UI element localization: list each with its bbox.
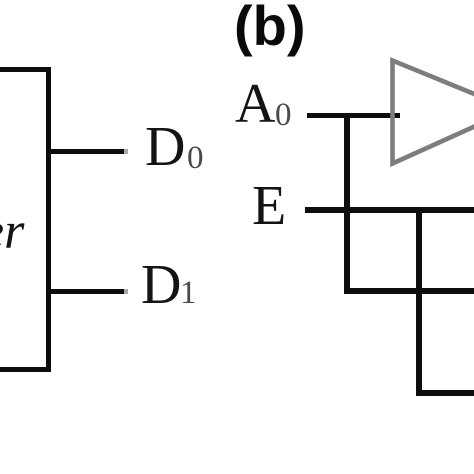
label D0 subscript 0 bbox=[187, 142, 204, 175]
wire D1 bbox=[51, 289, 124, 294]
wire D1 faded tip bbox=[124, 289, 128, 294]
wire bottom horizontal to right edge bbox=[417, 390, 474, 396]
label (b) bbox=[234, 0, 306, 54]
wire E horizontal bbox=[305, 207, 474, 213]
wire vertical from E wire down bbox=[416, 207, 422, 396]
label D1 bbox=[141, 257, 181, 313]
label A0 subscript 0 bbox=[275, 99, 292, 132]
wire vertical branch from A0 bbox=[344, 113, 350, 294]
wire A0 input bbox=[307, 113, 400, 118]
wire D0 bbox=[51, 149, 124, 154]
label A0 bbox=[235, 76, 275, 132]
decoder box (left, clipped at image edge) bbox=[0, 67, 51, 372]
label D0 bbox=[145, 119, 185, 175]
wire D0 faded tip bbox=[124, 149, 128, 154]
decoder label fragment 'er' (italic, clipped at left edge) bbox=[0, 206, 24, 258]
wire lower horizontal from branch corner bbox=[344, 288, 474, 294]
label E bbox=[252, 178, 286, 234]
label D1 subscript 1 bbox=[180, 277, 197, 310]
